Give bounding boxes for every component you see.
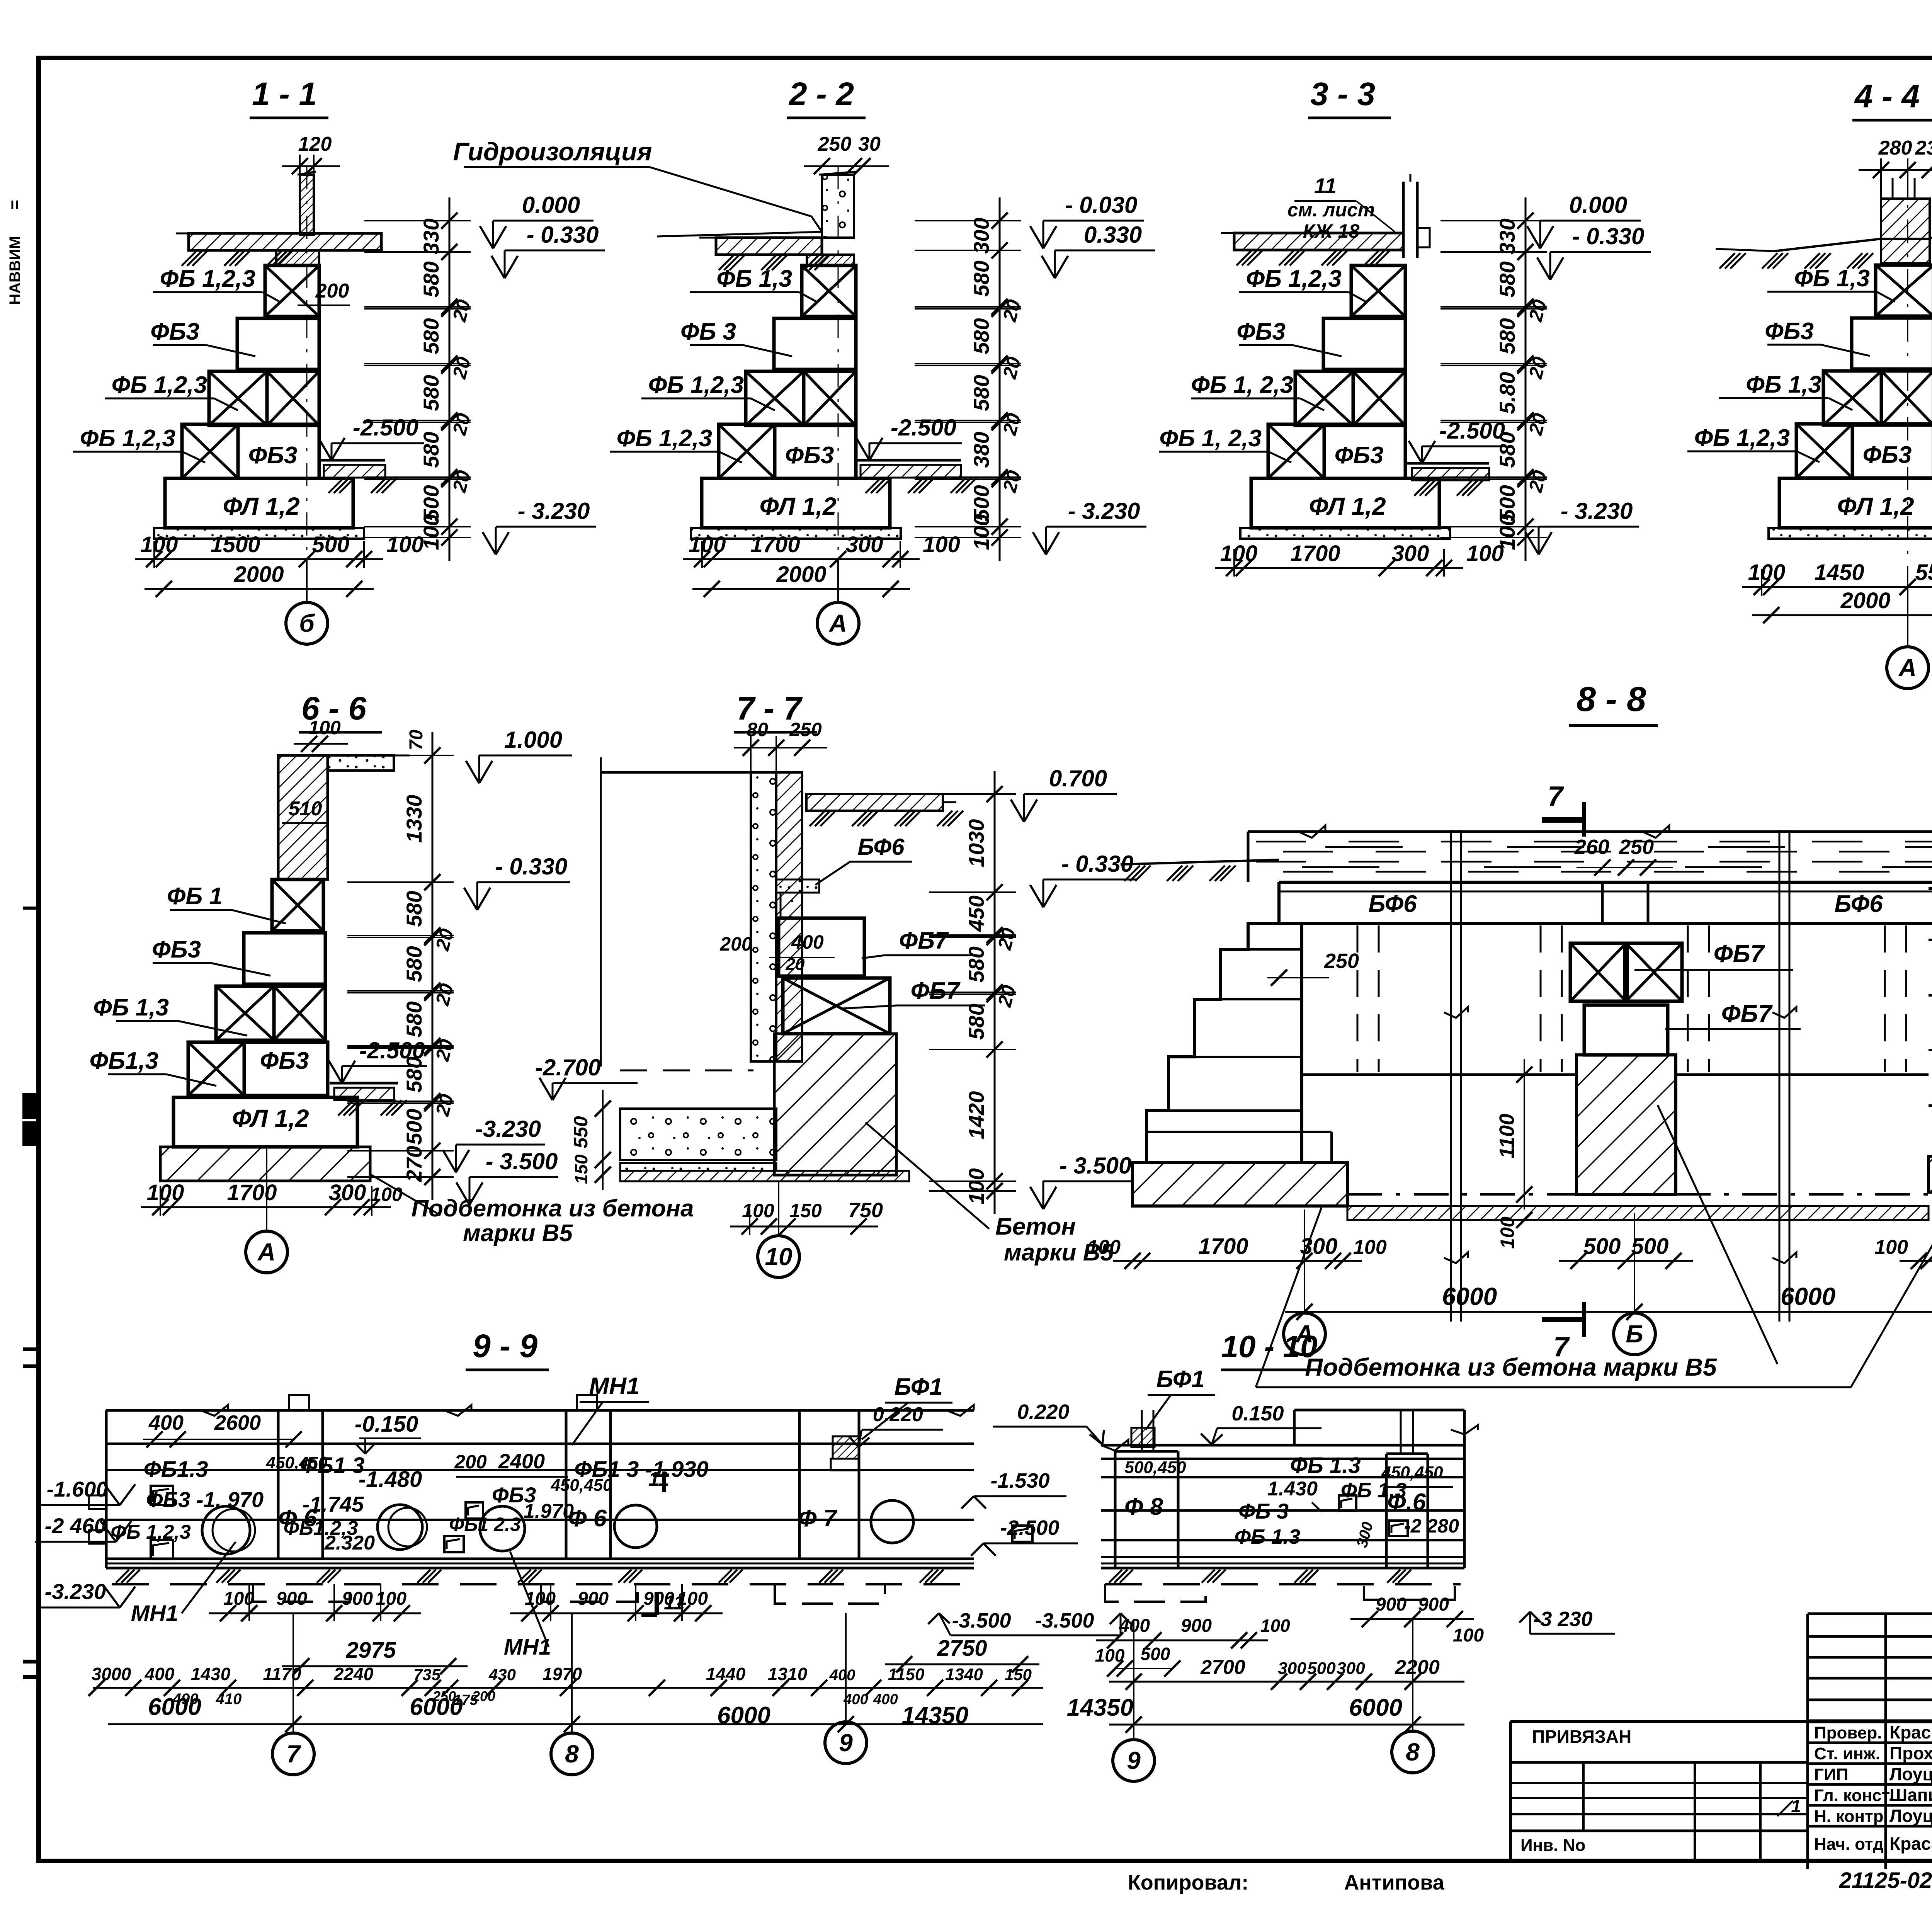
svg-text:100: 100 [1260, 1616, 1290, 1636]
svg-text:ФБ7: ФБ7 [1721, 1000, 1773, 1027]
svg-text:580: 580 [419, 318, 443, 354]
left staircase 8-8 [1146, 924, 1302, 1162]
grid circle 7 9-9 [293, 1613, 294, 1733]
svg-text:0.220: 0.220 [1017, 1400, 1069, 1424]
svg-text:2600: 2600 [214, 1411, 261, 1434]
ground hatch 9-9 [116, 1570, 129, 1583]
hatched block under wall 1-1 [276, 250, 319, 265]
svg-text:100: 100 [1497, 1216, 1518, 1249]
block FB upper (X) [265, 265, 319, 316]
svg-text:6000: 6000 [717, 1702, 770, 1729]
svg-text:ПРИВЯЗАН: ПРИВЯЗАН [1532, 1726, 1631, 1747]
svg-text:0.000: 0.000 [522, 192, 580, 218]
podbetonka strip [1769, 528, 1932, 539]
interior slab 7-7 [620, 1109, 776, 1160]
svg-text:100: 100 [742, 1200, 774, 1221]
level -2.500 2-2 [869, 442, 962, 444]
column F8 10-10 [1114, 1451, 1117, 1568]
svg-text:Лоуцкер: Лоуцкер [1889, 1806, 1932, 1826]
dims row 100 900 900 100 right 9-9 [510, 1613, 723, 1614]
level -3.500 7-7 [1043, 1180, 1132, 1182]
svg-text:100: 100 [223, 1589, 254, 1609]
svg-text:100: 100 [1874, 1236, 1908, 1259]
section cut 7 bottom mark [1542, 1317, 1584, 1322]
podbetonka strip [1240, 528, 1450, 539]
svg-text:1 - 1: 1 - 1 [252, 76, 317, 112]
svg-text:2000: 2000 [776, 562, 826, 587]
svg-text:ФБ3: ФБ3 [1765, 318, 1814, 345]
svg-text:1.430: 1.430 [1267, 1478, 1318, 1500]
svg-text:ФБ7: ФБ7 [911, 978, 961, 1004]
svg-text:6000: 6000 [410, 1694, 463, 1720]
svg-text:3000: 3000 [92, 1664, 131, 1684]
svg-text:500: 500 [1307, 1659, 1336, 1678]
axis line 1-1 [306, 166, 308, 560]
levels left 9-9 [104, 1484, 120, 1505]
svg-text:ФБ1,3: ФБ1,3 [90, 1048, 159, 1074]
svg-text:4 - 4: 4 - 4 [1854, 78, 1920, 114]
svg-text:ФБ3: ФБ3 [150, 318, 199, 345]
svg-text:300: 300 [1300, 1234, 1338, 1259]
svg-text:-3.230: -3.230 [45, 1579, 106, 1604]
svg-text:10: 10 [765, 1243, 792, 1271]
level 0.700 7-7 [1024, 793, 1117, 795]
svg-text:б: б [299, 609, 315, 637]
svg-text:А: А [828, 609, 847, 637]
svg-text:100: 100 [1353, 1236, 1387, 1259]
ground hatch 10-10 [1109, 1570, 1122, 1583]
dim chain 1-1 [449, 197, 451, 561]
level -3.230 6-6 [456, 1144, 545, 1146]
svg-text:580: 580 [1495, 318, 1519, 354]
svg-text:БФ6: БФ6 [1834, 891, 1883, 917]
svg-text:ФБ 3: ФБ 3 [1238, 1499, 1289, 1523]
band lines 10-10 [1101, 1444, 1464, 1447]
svg-text:550: 550 [570, 1116, 592, 1148]
block FB3 6-6 [244, 933, 325, 984]
svg-text:ФБ 1,2,3: ФБ 1,2,3 [1694, 425, 1790, 451]
svg-text:9 - 9: 9 - 9 [473, 1328, 537, 1364]
svg-text:1700: 1700 [750, 532, 800, 557]
svg-text:500: 500 [402, 1109, 426, 1145]
block FB3 plain [237, 318, 319, 369]
svg-text:400: 400 [148, 1411, 184, 1434]
block FB upper (X) [802, 265, 856, 316]
block FB3 plain [1323, 318, 1405, 369]
dashed footing 10-10 [1105, 1584, 1206, 1602]
svg-text:6000: 6000 [1781, 1283, 1835, 1310]
svg-text:21125-02: 21125-02 [1839, 1868, 1932, 1893]
svg-text:ФБ 1,2,3: ФБ 1,2,3 [112, 372, 207, 398]
grid circle B 8-8 [1634, 1213, 1635, 1312]
svg-text:580: 580 [1495, 432, 1519, 468]
level -3.230 3-3 [1539, 526, 1639, 528]
svg-text:3 - 3: 3 - 3 [1310, 76, 1375, 112]
svg-text:Б: Б [1626, 1320, 1643, 1348]
block FB1,2,3 X + FB3 [1268, 424, 1324, 478]
svg-text:2000: 2000 [233, 562, 284, 587]
svg-text:100: 100 [525, 1589, 556, 1609]
left ground 8-8 [1121, 860, 1279, 864]
block FB1,2,3 double X [1823, 371, 1881, 425]
svg-text:580: 580 [964, 1004, 988, 1039]
svg-text:ФБ3: ФБ3 [152, 936, 201, 963]
bottom dims 6-6 [141, 1206, 391, 1208]
svg-text:ГИП: ГИП [1814, 1765, 1848, 1784]
svg-text:400: 400 [791, 931, 824, 953]
podbetonka strip [691, 528, 901, 539]
svg-text:250: 250 [789, 719, 822, 740]
svg-text:100: 100 [386, 532, 424, 557]
svg-text:ФЛ 1,2: ФЛ 1,2 [1309, 492, 1386, 520]
svg-text:300: 300 [846, 532, 883, 557]
wall 7-7 hatched layer [776, 772, 802, 1061]
svg-text:300: 300 [1278, 1659, 1306, 1678]
block FB1,2,3 double X [1295, 371, 1353, 425]
svg-text:900: 900 [276, 1589, 307, 1609]
svg-text:-1.480: -1.480 [359, 1467, 422, 1492]
svg-text:580: 580 [402, 891, 426, 927]
svg-text:ФБ 1: ФБ 1 [167, 883, 223, 910]
svg-text:2 - 2: 2 - 2 [788, 76, 854, 112]
svg-text:ФБ 1,2,3: ФБ 1,2,3 [160, 265, 255, 292]
bottom dims center 8-8 [1559, 1260, 1693, 1262]
floor slab 3-3 [1234, 233, 1403, 250]
flag squares 10-10 [1339, 1495, 1356, 1511]
neck 7-7 [781, 893, 802, 918]
svg-text:Копировал:: Копировал: [1128, 1871, 1249, 1894]
svg-text:ФБ 1, 2,3: ФБ 1, 2,3 [1159, 425, 1262, 452]
svg-text:11: 11 [1314, 173, 1337, 198]
block FL12 6-6 [173, 1097, 357, 1147]
bottom dims 7-7 [730, 1226, 878, 1228]
svg-text:-2 460: -2 460 [45, 1514, 106, 1538]
svg-text:Лоуцкер: Лоуцкер [1889, 1764, 1932, 1784]
svg-text:100: 100 [1087, 1236, 1121, 1259]
central pier hatched [1577, 1055, 1676, 1194]
big dim chain 9-9 [93, 1687, 1043, 1689]
svg-text:ФБ 1,3: ФБ 1,3 [1794, 265, 1870, 292]
right staircase 8-8 [1929, 889, 1932, 1157]
block FB1 X 6-6 [272, 879, 323, 931]
top water band 8-8 [1248, 830, 1932, 833]
column F7 9-9 [798, 1410, 801, 1559]
svg-text:Подбетонка из бетона: Подбетонка из бетона [412, 1195, 694, 1222]
svg-text:1700: 1700 [227, 1180, 277, 1205]
level -2.500 1-1 [332, 442, 424, 444]
ledge -2.500 6-6 [330, 1082, 398, 1085]
wall 4-4 [1881, 199, 1930, 239]
svg-text:200: 200 [454, 1451, 487, 1473]
svg-text:1340: 1340 [945, 1665, 983, 1684]
svg-text:0.700: 0.700 [1049, 765, 1107, 791]
svg-text:-3.500: -3.500 [952, 1609, 1011, 1632]
svg-text:ФБ 1.3: ФБ 1.3 [1290, 1453, 1361, 1478]
svg-text:А: А [257, 1238, 276, 1266]
svg-text:1.970: 1.970 [524, 1500, 574, 1522]
svg-text:900: 900 [1181, 1616, 1212, 1636]
svg-text:БФ6: БФ6 [857, 834, 905, 860]
svg-text:- 0.030: - 0.030 [1065, 192, 1138, 218]
column head center 8-8 [1601, 882, 1604, 924]
block FB3 plain [774, 318, 856, 369]
grid circle 10 7-7 [778, 1181, 779, 1235]
svg-text:ФБ 1,3: ФБ 1,3 [93, 994, 169, 1021]
podbetonka strip [154, 528, 364, 539]
svg-text:900: 900 [643, 1589, 674, 1609]
svg-text:580: 580 [419, 432, 443, 468]
svg-text:100: 100 [1453, 1625, 1484, 1646]
ground slope 4-4 [1774, 239, 1881, 251]
block FB1,2,3 double X [746, 371, 804, 425]
bottom dims left 8-8 [1113, 1260, 1362, 1262]
svg-text:см. лист: см. лист [1287, 199, 1375, 221]
svg-text:410: 410 [216, 1691, 242, 1708]
svg-text:- 3.500: - 3.500 [486, 1148, 558, 1174]
svg-text:ФБ7: ФБ7 [1714, 940, 1765, 968]
right ground 7-7 [806, 794, 943, 811]
svg-text:0.150: 0.150 [1231, 1402, 1284, 1425]
block FB1,2,3 X + FB3 [1796, 424, 1852, 478]
svg-text:450,450: 450,450 [550, 1476, 612, 1495]
svg-text:1100: 1100 [1495, 1114, 1519, 1158]
svg-text:ФБ1.3: ФБ1.3 [144, 1457, 208, 1482]
dims 400 900 100 10-10 [1096, 1640, 1268, 1641]
beam BF6 7-7 [776, 879, 819, 893]
svg-text:2400: 2400 [498, 1450, 545, 1473]
svg-text:200: 200 [719, 933, 752, 955]
svg-text:ФБ 1,2,3: ФБ 1,2,3 [648, 372, 744, 398]
water texture lines [1256, 841, 1932, 843]
svg-text:900: 900 [342, 1589, 373, 1609]
svg-text:450,450: 450,450 [265, 1453, 328, 1472]
wall 7-7 concrete layer [751, 772, 776, 1061]
dim chain 3-3 [1525, 197, 1527, 561]
svg-text:100: 100 [308, 717, 341, 738]
svg-text:100: 100 [1748, 560, 1786, 585]
svg-text:100: 100 [923, 532, 960, 557]
bottom thin strip 8-8 [1347, 1205, 1929, 1207]
flag squares 9-9 [151, 1486, 173, 1505]
svg-text:100: 100 [147, 1180, 184, 1205]
block FL1,2 footing [1779, 478, 1932, 528]
svg-text:400: 400 [843, 1691, 868, 1708]
svg-text:150: 150 [1005, 1665, 1032, 1684]
dashed footing 9-9 [112, 1583, 966, 1585]
svg-text:2700: 2700 [1200, 1656, 1245, 1679]
svg-text:580: 580 [969, 318, 993, 354]
svg-text:- 0.330: - 0.330 [495, 854, 568, 879]
svg-text:А: А [1898, 654, 1917, 682]
svg-text:1420: 1420 [964, 1091, 988, 1140]
left footing 8-8 [1133, 1162, 1347, 1206]
svg-text:Провер.: Провер. [1814, 1723, 1882, 1742]
svg-text:580: 580 [1495, 261, 1519, 297]
level -0.330 7-7 [1043, 879, 1136, 881]
svg-text:БФ1: БФ1 [1156, 1366, 1204, 1393]
svg-text:150: 150 [789, 1200, 822, 1221]
band lines 9-9 [106, 1409, 974, 1412]
svg-text:1450: 1450 [1814, 560, 1864, 585]
svg-text:ФБ 1.3: ФБ 1.3 [1235, 1525, 1300, 1548]
svg-text:100: 100 [1466, 541, 1504, 566]
svg-text:900: 900 [1376, 1594, 1406, 1615]
svg-text:6000: 6000 [1442, 1283, 1497, 1310]
svg-text:ФБ3: ФБ3 [785, 442, 834, 469]
svg-text:430: 430 [488, 1665, 516, 1684]
svg-text:-3.500: -3.500 [1035, 1609, 1094, 1632]
left margin fold marks [22, 1093, 40, 1119]
svg-text:1150: 1150 [888, 1665, 925, 1684]
svg-text:2975: 2975 [345, 1638, 396, 1663]
svg-text:ФЛ 1,2: ФЛ 1,2 [1837, 492, 1914, 520]
svg-text:ФБ7: ФБ7 [899, 927, 949, 954]
svg-text:100: 100 [370, 1184, 403, 1205]
circles MN1 9-9 [202, 1506, 250, 1554]
svg-text:100: 100 [677, 1589, 708, 1609]
svg-text:-2.500: -2.500 [1000, 1516, 1059, 1539]
svg-text:Н. контр: Н. контр [1814, 1807, 1884, 1826]
concrete mass 7-7 [774, 1034, 896, 1175]
svg-text:400: 400 [873, 1691, 898, 1708]
svg-text:марки В5: марки В5 [463, 1220, 573, 1247]
central pier FB7 plain [1584, 1005, 1668, 1055]
block FB13 double X 6-6 [216, 986, 274, 1040]
grid circle b 1-1 [306, 559, 308, 603]
grid circle 9 10-10 [1133, 1619, 1134, 1740]
ledge -2.500 3-3 [1407, 462, 1489, 465]
svg-text:6000: 6000 [1349, 1694, 1402, 1721]
svg-text:ФЛ 1,2: ФЛ 1,2 [759, 492, 836, 520]
level -3.230 2-2 [1046, 526, 1146, 528]
svg-text:14350: 14350 [1067, 1694, 1133, 1721]
svg-text:0.220: 0.220 [873, 1403, 923, 1426]
svg-text:Гидроизоляция: Гидроизоляция [453, 137, 652, 166]
column F6 B 9-9 [565, 1410, 568, 1559]
svg-text:100: 100 [1220, 541, 1258, 566]
slope line to wall base 2-2 [657, 232, 822, 236]
svg-text:300: 300 [1392, 541, 1429, 566]
svg-text:- 3.230: - 3.230 [1068, 498, 1140, 524]
svg-text:400: 400 [145, 1664, 175, 1684]
svg-text:Шапиро: Шапиро [1889, 1785, 1932, 1805]
svg-text:300: 300 [1337, 1659, 1365, 1678]
svg-text:Бетон: Бетон [995, 1213, 1076, 1240]
bottom dims 4-4 [1742, 586, 1932, 588]
svg-text:Красавин: Красавин [1889, 1834, 1932, 1854]
svg-text:1700: 1700 [1290, 541, 1340, 566]
central pier X block FB7 [1570, 943, 1626, 1001]
column F6 10-10 [1385, 1454, 1388, 1568]
svg-text:580: 580 [402, 1056, 426, 1092]
svg-text:270: 270 [402, 1146, 426, 1182]
stamp main rows table [1808, 1721, 1932, 1723]
svg-text:580: 580 [964, 946, 988, 982]
svg-text:8 - 8: 8 - 8 [1577, 680, 1646, 719]
column F6 A 9-9 [277, 1410, 280, 1559]
level 0.000 3-3 [1540, 220, 1641, 222]
axis line 2-2 [838, 166, 839, 560]
floor slab 2-2 left [716, 238, 822, 255]
svg-text:-3 230: -3 230 [1533, 1607, 1592, 1631]
block FB7 X 7-7 [783, 978, 890, 1034]
svg-text:Подбетонка из бетона марки В5: Подбетонка из бетона марки В5 [1305, 1353, 1717, 1381]
svg-text:7: 7 [1548, 781, 1564, 812]
svg-text:ФБ 1,2,3: ФБ 1,2,3 [80, 425, 175, 452]
svg-text:280: 280 [1878, 137, 1912, 159]
svg-text:БФ1: БФ1 [894, 1374, 942, 1400]
wall 2-2 concrete [822, 175, 854, 238]
svg-text:10 - 10: 10 - 10 [1221, 1329, 1317, 1364]
svg-text:ФБ 1,2,3: ФБ 1,2,3 [617, 425, 712, 452]
dim chain 7-7 [994, 771, 996, 1214]
left end profile 9-9 [89, 1495, 106, 1509]
svg-text:ФБ3: ФБ3 [1335, 442, 1384, 469]
svg-text:580: 580 [969, 375, 993, 411]
svg-text:1970: 1970 [543, 1664, 582, 1684]
axis line 4-4 [1907, 170, 1908, 587]
svg-text:Ст. инж.: Ст. инж. [1814, 1744, 1880, 1763]
svg-text:МН1: МН1 [504, 1635, 551, 1660]
svg-text:250: 250 [1324, 949, 1359, 973]
svg-text:500: 500 [312, 532, 350, 557]
svg-text:ФЛ 1,2: ФЛ 1,2 [223, 492, 299, 520]
level -0.330 6-6 [477, 881, 570, 883]
svg-text:580: 580 [419, 261, 443, 297]
svg-text:70: 70 [406, 730, 427, 750]
level -3.500 6-6 [469, 1176, 558, 1178]
level -2.700 7-7 [553, 1082, 638, 1084]
svg-text:-1.745: -1.745 [303, 1492, 364, 1516]
grid circle A 6-6 [266, 1147, 267, 1231]
svg-text:ФБ 1, 2,3: ФБ 1, 2,3 [1191, 372, 1293, 398]
axis verticals 8-8 [1450, 830, 1452, 1322]
svg-text:1.000: 1.000 [504, 727, 562, 753]
svg-text:9: 9 [1127, 1747, 1141, 1774]
dim 1100 8-8 [1524, 1059, 1525, 1209]
svg-text:ФБ 1,2,3: ФБ 1,2,3 [1246, 265, 1342, 292]
svg-text:Ф 7: Ф 7 [798, 1505, 838, 1532]
block FB13 X + FB3 6-6 [188, 1042, 244, 1095]
svg-text:200: 200 [315, 280, 349, 302]
level -0.330 3-3 [1550, 251, 1651, 253]
interior floor line 7-7 [601, 771, 751, 774]
chain 10-10 [1109, 1681, 1464, 1683]
block FB1,2,3 X + FB3 [182, 424, 238, 478]
block FB upper (X) [1351, 265, 1405, 316]
svg-text:230: 230 [1915, 137, 1932, 159]
svg-text:330: 330 [419, 218, 443, 254]
svg-text:510: 510 [289, 798, 322, 820]
svg-text:400: 400 [829, 1667, 855, 1684]
svg-text:500: 500 [1631, 1234, 1669, 1259]
svg-text:-3.230: -3.230 [475, 1116, 541, 1142]
svg-text:380: 380 [969, 432, 993, 468]
retaining wall 6-6 [278, 755, 328, 879]
svg-text:БФ6: БФ6 [1368, 891, 1417, 917]
svg-text:-2 280: -2 280 [1404, 1515, 1459, 1537]
svg-text:-1.600: -1.600 [47, 1477, 108, 1501]
svg-text:100: 100 [969, 514, 993, 550]
podbetonka 6-6 [160, 1147, 370, 1181]
svg-text:- 0.330: - 0.330 [527, 222, 599, 248]
bottom dims 2-2 [683, 558, 920, 560]
level 0.330 2-2 [1055, 250, 1155, 252]
grid circle A 2-2 [837, 559, 839, 603]
svg-text:500: 500 [1583, 1234, 1621, 1259]
svg-text:2.320: 2.320 [324, 1532, 375, 1554]
svg-text:Гл. конст.: Гл. конст. [1814, 1786, 1893, 1805]
